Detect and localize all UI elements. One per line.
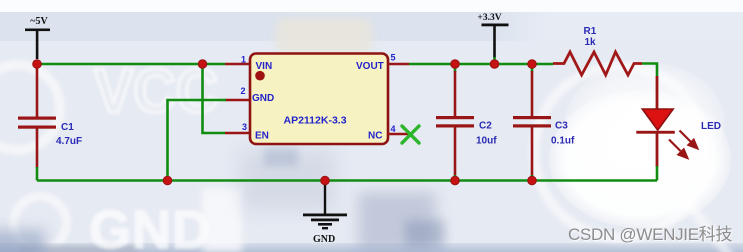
node junction EN tap [198, 60, 207, 69]
node junction at ~5V [33, 60, 42, 69]
svg-text:0.1uf: 0.1uf [551, 136, 575, 147]
wire VIN rail [37, 63, 225, 66]
svg-text:4.7uF: 4.7uF [56, 136, 82, 147]
ground symbol [303, 176, 347, 245]
svg-text:GND: GND [252, 93, 274, 104]
svg-text:3: 3 [242, 122, 247, 132]
regulator IC U1 AP2112K-3.3 [250, 54, 388, 145]
power symbol +3.3V [477, 13, 508, 64]
svg-text:+3.3V: +3.3V [477, 13, 501, 23]
power symbol ~5V [25, 16, 50, 59]
svg-text:R1: R1 [584, 26, 597, 37]
wire to R1 [534, 63, 553, 66]
svg-text:5: 5 [391, 53, 396, 63]
svg-text:VOUT: VOUT [356, 61, 384, 72]
node junction C3 top [528, 60, 537, 69]
svg-text:C1: C1 [61, 122, 74, 133]
wire LED to ground rail [656, 133, 659, 181]
wire R1 to LED [642, 64, 657, 110]
svg-text:LED: LED [701, 121, 721, 132]
pin 4 stub [388, 133, 409, 136]
svg-text:~5V: ~5V [30, 16, 48, 27]
svg-text:2: 2 [240, 86, 245, 96]
svg-text:4: 4 [391, 124, 396, 134]
svg-text:NC: NC [368, 131, 382, 142]
node junction GND-rail [163, 176, 172, 185]
svg-text:AP2112K-3.3: AP2112K-3.3 [284, 114, 347, 126]
svg-text:10uf: 10uf [476, 136, 497, 147]
LED D1 with light arrows [636, 109, 721, 158]
wire VOUT rail [409, 63, 534, 66]
capacitor C1 [18, 117, 82, 148]
svg-text:C3: C3 [555, 121, 568, 132]
pin 5 stub [388, 63, 409, 66]
svg-text:1k: 1k [585, 37, 597, 48]
node junction C2 bottom [451, 176, 460, 185]
capacitor C2 [436, 64, 497, 181]
node junction +3.3V [490, 60, 499, 69]
svg-text:EN: EN [255, 131, 269, 142]
svg-text:C2: C2 [479, 121, 492, 132]
wire C1 upper [36, 64, 39, 117]
svg-text:GND: GND [313, 234, 335, 245]
wire GND net [168, 100, 251, 181]
wire ground rail [37, 179, 657, 182]
svg-text:VIN: VIN [256, 61, 273, 72]
node junction C2 top [451, 60, 460, 69]
pin 1 stub [225, 63, 250, 66]
resistor R1 [553, 26, 642, 75]
wire EN net [203, 64, 251, 133]
capacitor C3 [513, 64, 575, 181]
svg-text:1: 1 [241, 55, 246, 65]
node junction C3 bottom [528, 176, 537, 185]
wire C1 lower [36, 128, 39, 181]
no-ERC marker X [402, 126, 419, 143]
